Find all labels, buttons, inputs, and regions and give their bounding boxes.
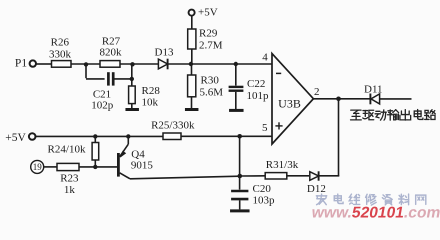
svg-text:R29: R29 — [199, 28, 218, 40]
svg-text:5.6M: 5.6M — [200, 86, 224, 98]
wire C21 right plate to R28 node — [113, 78, 132, 80]
wire D12 to feedback vertical — [319, 175, 340, 177]
wire R25 to op-amp pin 5 — [181, 135, 272, 137]
node Q4 emitter tap — [126, 134, 130, 138]
svg-text:101p: 101p — [247, 90, 270, 102]
ground under R30 — [185, 108, 199, 111]
resistor R30 — [188, 75, 196, 97]
wire node to C21 left — [85, 64, 87, 78]
wire pin5 node down to C20 — [239, 136, 241, 189]
svg-text:R31/3k: R31/3k — [266, 159, 299, 171]
svg-text:R28: R28 — [142, 85, 161, 97]
text: 至驱动输出电路 (to drive output circuit) — [351, 110, 362, 120]
wire rail to R24 — [94, 136, 96, 142]
svg-text:D13: D13 — [155, 47, 174, 59]
op-amp U3B — [272, 54, 313, 145]
wire top rail down to R28 — [131, 64, 133, 86]
diode D13 — [158, 59, 167, 69]
resistor R29 — [188, 29, 196, 49]
svg-text:Q4: Q4 — [131, 148, 145, 160]
svg-text:10k: 10k — [142, 96, 159, 108]
svg-text:R30: R30 — [201, 74, 220, 86]
wire D13 to op-amp pin 4 — [168, 63, 272, 65]
ground under C20 — [230, 209, 250, 212]
svg-text:820k: 820k — [100, 47, 123, 59]
capacitor C20 — [231, 190, 248, 193]
node R24 tap — [93, 134, 97, 138]
node R24/base junction — [93, 165, 97, 169]
watermark: 家电维修资料网 — [316, 194, 326, 205]
wire top rail to C22 — [235, 64, 237, 86]
ground under C22 — [229, 109, 244, 112]
transistor Q4 (PNP 9015) — [117, 153, 120, 177]
wire R26 to R27 — [71, 63, 100, 65]
svg-text:102p: 102p — [91, 100, 114, 112]
svg-text:D12: D12 — [307, 183, 326, 195]
emitter with arrow — [120, 144, 129, 157]
wire P1 to R26 — [36, 63, 51, 65]
svg-text:2: 2 — [314, 86, 320, 98]
resistor R27 — [100, 61, 120, 68]
wire C22 to ground — [235, 92, 237, 109]
wire R29 to top rail — [191, 49, 193, 64]
wire R23 to Q4 base — [79, 166, 117, 168]
svg-text:+5V: +5V — [198, 7, 218, 19]
wire to C21 left plate — [86, 78, 105, 80]
svg-text:C22: C22 — [247, 78, 265, 90]
svg-text:103p: 103p — [253, 195, 276, 207]
svg-text:R25/330k: R25/330k — [151, 120, 195, 132]
svg-text:C21: C21 — [93, 88, 111, 100]
junction node C21/R28 — [130, 77, 134, 81]
resistor R28 — [129, 86, 136, 104]
svg-text:R24/10k: R24/10k — [48, 144, 86, 156]
node output junction — [336, 97, 341, 102]
resistor R24 — [92, 143, 99, 161]
junction node after R26 (C21 tap) — [84, 62, 88, 66]
wire +5V to R29 — [191, 16, 193, 29]
wire output node down to D12 — [338, 99, 340, 176]
resistor R31 — [265, 173, 287, 179]
resistor R23 — [57, 163, 79, 170]
wire top rail to R30 — [191, 64, 193, 75]
svg-text:1k: 1k — [64, 184, 76, 196]
terminal P1 — [30, 60, 36, 66]
wire node to R31 — [242, 175, 265, 177]
wire C20 to ground — [239, 200, 241, 209]
wire R27 to D13 — [120, 63, 159, 65]
svg-text:U3B: U3B — [278, 96, 301, 110]
diode D12 — [310, 172, 319, 181]
svg-text:P1: P1 — [15, 58, 27, 70]
diode D11 — [369, 94, 371, 105]
capacitor C21 — [107, 72, 110, 85]
junction node after R27 (R28 tap) — [130, 62, 134, 66]
wire R24 to base line — [94, 160, 96, 167]
svg-text:R26: R26 — [51, 36, 70, 48]
node C20/R31 junction — [238, 174, 243, 179]
svg-text:4: 4 — [262, 52, 268, 64]
wire 19 to R23 — [44, 166, 57, 168]
plus sign pin 5 input — [275, 125, 282, 127]
svg-text:330k: 330k — [49, 48, 72, 60]
wire op-amp output to D11 — [313, 98, 370, 100]
terminal +5V top — [189, 10, 195, 16]
wire R31 to D12 — [287, 175, 309, 177]
svg-text:2.7M: 2.7M — [199, 40, 223, 52]
node pin5 / C20 junction — [237, 134, 242, 139]
wire R28 to ground — [131, 104, 133, 109]
terminal +5V bottom — [29, 133, 36, 140]
terminal 19 — [31, 160, 44, 173]
svg-text:+5V: +5V — [5, 132, 26, 144]
resistor R26 — [52, 61, 72, 68]
svg-text:R23: R23 — [60, 173, 79, 185]
svg-text:5: 5 — [262, 122, 268, 134]
wire Q4 collector to C20 node — [130, 176, 240, 179]
wire +5V rail to R25 — [36, 135, 163, 137]
node top rail / C22 tap — [234, 62, 238, 66]
svg-text:19: 19 — [33, 162, 43, 172]
capacitor C22 — [229, 86, 244, 88]
ground under R28 — [125, 108, 139, 111]
svg-text:C20: C20 — [253, 183, 272, 195]
watermark: www.520101.com — [309, 205, 440, 222]
wire R30 to ground — [191, 97, 193, 108]
wire D11 to output right — [380, 98, 412, 100]
node top rail / R29 R30 junction — [189, 62, 193, 66]
wire emitter vertical — [127, 136, 129, 144]
svg-text:www.520101.com: www.520101.com — [309, 205, 440, 221]
svg-text:D11: D11 — [364, 84, 383, 96]
svg-text:9015: 9015 — [131, 160, 154, 172]
resistor R25 — [163, 133, 181, 140]
collector — [120, 173, 130, 179]
